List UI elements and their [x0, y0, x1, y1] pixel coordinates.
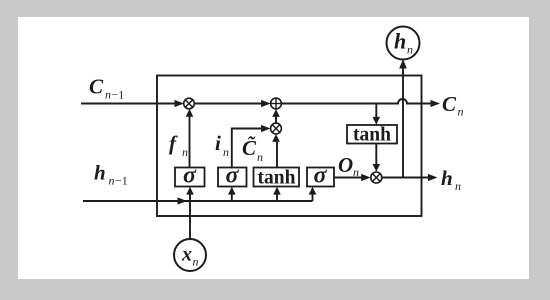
arrowhead down into output tanh — [373, 117, 381, 125]
wire f gate to multiply node — [189, 111, 191, 168]
arrowhead tanh into multiply node 2 — [272, 134, 280, 142]
svg-text:−1: −1 — [112, 88, 125, 102]
arrowhead up into h_n circle — [399, 59, 407, 69]
wire C branch down to output tanh — [375, 104, 377, 118]
svg-text:n: n — [353, 165, 359, 179]
wire i gate to multiply node — [232, 129, 262, 168]
arrowhead into tanh — [273, 187, 281, 195]
svg-text:tanh: tanh — [258, 168, 296, 189]
wire C output with hop over h feedback — [281, 99, 430, 104]
svg-text:tanh: tanh — [353, 125, 391, 146]
svg-text:i: i — [215, 131, 221, 155]
svg-text:−1: −1 — [115, 174, 128, 188]
svg-text:n: n — [223, 145, 229, 159]
LSTM cell outer box — [157, 76, 422, 217]
wire branch to sigma o — [312, 189, 314, 201]
wire h_{n-1} input — [83, 200, 313, 202]
wire branch to sigma i — [231, 189, 233, 201]
wire sigma o to multiply node — [334, 177, 362, 179]
add node — [271, 98, 282, 109]
x_n circle — [174, 239, 206, 271]
svg-text:n: n — [193, 255, 199, 269]
svg-text:C: C — [89, 75, 104, 99]
arrowhead f into multiply node 1 — [186, 109, 194, 117]
arrowhead x_n into sigma f — [186, 187, 194, 195]
svg-text:n: n — [109, 174, 115, 188]
arrowhead C_n output — [431, 100, 441, 107]
arrowhead down into multiply node 3 — [373, 164, 381, 172]
svg-text:σ: σ — [226, 163, 240, 189]
sigma box f gate — [175, 168, 205, 187]
svg-text:h: h — [394, 29, 406, 54]
arrowhead i into multiply node 2 — [261, 125, 271, 132]
svg-text:n: n — [105, 88, 111, 102]
arrowhead sigma o into multiply node 3 — [361, 174, 371, 181]
svg-text:h: h — [94, 161, 106, 185]
sigma box o gate — [307, 168, 334, 187]
svg-text:x: x — [181, 244, 192, 266]
svg-text:n: n — [182, 145, 188, 159]
svg-text:σ: σ — [314, 163, 328, 189]
svg-text:C̃: C̃ — [242, 136, 257, 160]
wire output tanh to multiply node — [375, 144, 377, 165]
tanh box output — [347, 125, 397, 144]
wire C between gates — [194, 103, 262, 105]
arrowhead multiply into add node — [272, 109, 280, 117]
h_n circle — [387, 27, 420, 60]
wire branch to tanh — [276, 189, 278, 201]
tanh box candidate — [254, 168, 300, 187]
multiply node 3 (output gate) — [371, 172, 382, 183]
svg-text:C: C — [442, 92, 457, 116]
arrowhead into sigma o — [309, 187, 317, 195]
wire tanh to multiply node — [276, 142, 278, 168]
wire C input segment — [81, 103, 176, 105]
wire h feedback riser to h_n circle — [402, 68, 404, 178]
svg-text:σ: σ — [183, 163, 197, 189]
arrowhead into sigma i — [228, 187, 236, 195]
arrowhead into add node — [261, 100, 271, 107]
wire multiply to add node — [275, 116, 277, 123]
svg-text:h: h — [441, 166, 453, 190]
arrowhead on h_{n-1} wire — [178, 197, 188, 204]
arrowhead h_n output — [428, 174, 438, 181]
sigma box i gate — [218, 168, 247, 187]
svg-text:n: n — [407, 43, 413, 57]
multiply node 1 (forget gate) — [184, 98, 195, 109]
svg-text:n: n — [455, 179, 461, 193]
arrowhead into multiply node 1 — [175, 100, 185, 107]
svg-text:n: n — [257, 150, 263, 164]
wire x_n riser to sigma f — [189, 189, 191, 240]
multiply node 2 (input gate) — [271, 123, 282, 134]
wire h output — [382, 177, 429, 179]
svg-text:O: O — [338, 153, 353, 177]
svg-text:n: n — [458, 105, 464, 119]
